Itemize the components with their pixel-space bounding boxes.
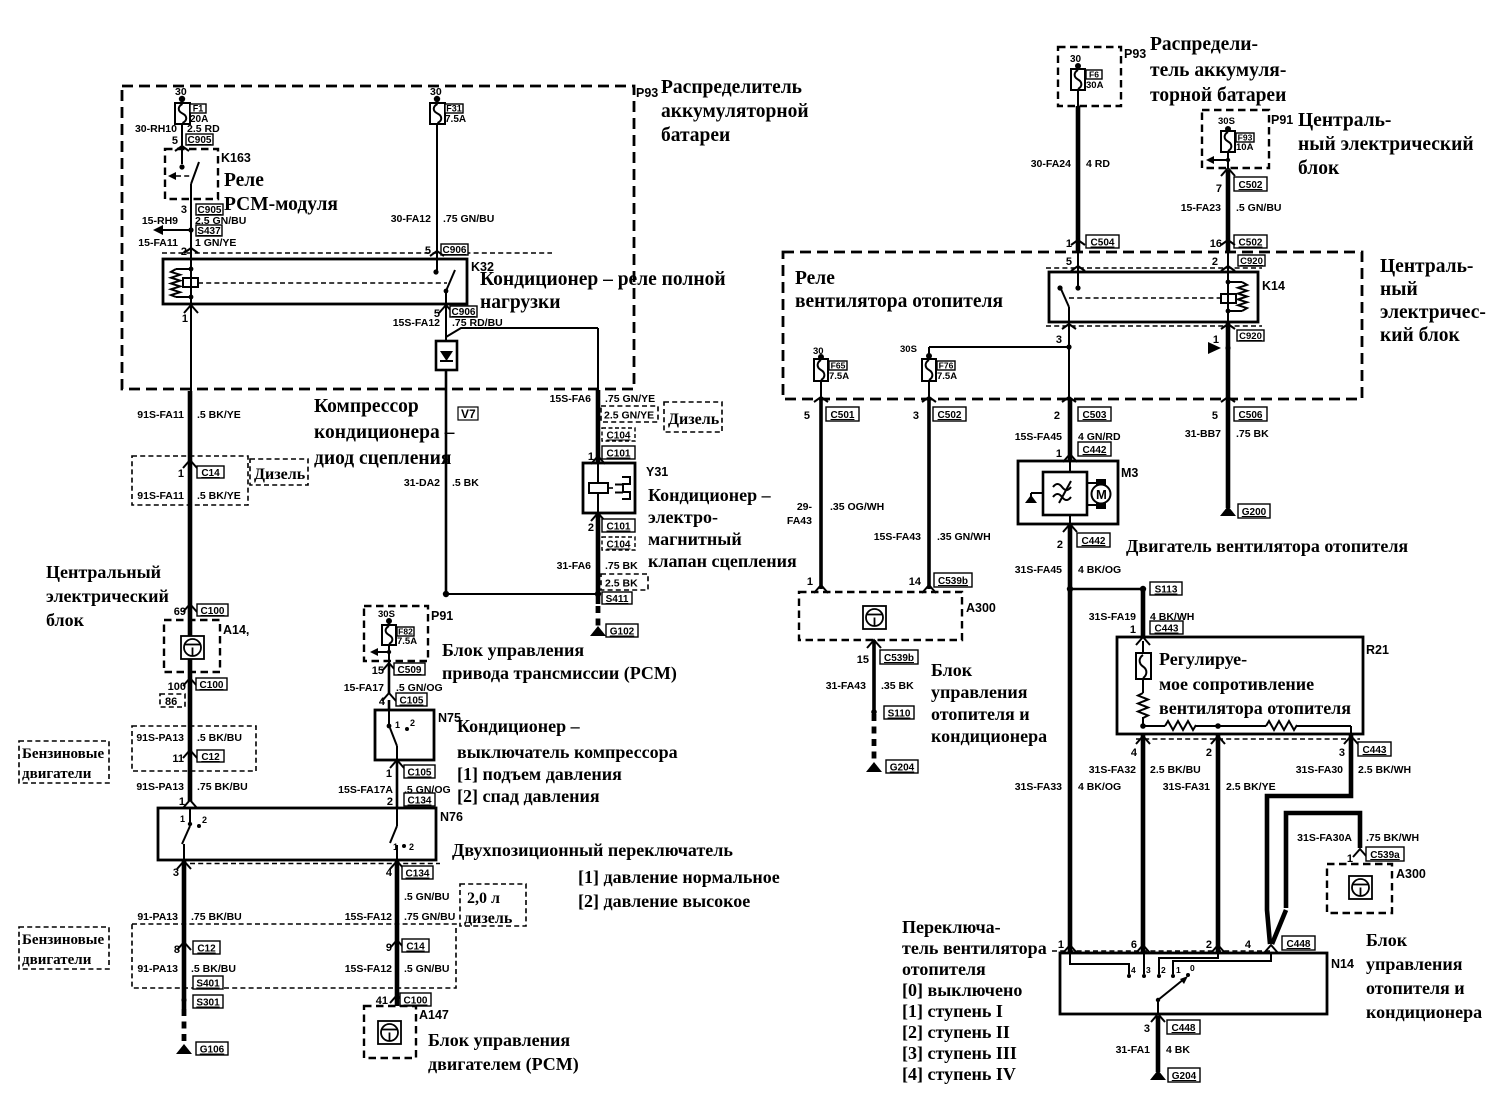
svg-text:7.5A: 7.5A [937,371,957,382]
solenoid valve Y31 [583,463,668,513]
wire F31 to K32 pin5 (30-FA12) [391,124,495,270]
label: Кондиционер – реле полной нагрузки [480,269,726,313]
wire K14 pin1 down with arrow marker [1208,322,1231,399]
connector 4 C105 [379,693,427,710]
svg-text:31S-FA31: 31S-FA31 [1163,781,1210,793]
svg-text:G204: G204 [890,763,915,774]
svg-text:15: 15 [857,654,869,666]
svg-text:2: 2 [1054,410,1060,422]
svg-text:6: 6 [1131,939,1137,951]
label: Блок управления отопителя и кондиционера (right) [1366,930,1482,1022]
svg-text:C442: C442 [1082,536,1106,547]
fuse F76 7.5A [900,344,957,399]
svg-text:2.5 RD: 2.5 RD [187,123,220,135]
svg-text:.75 BK/BU: .75 BK/BU [197,781,248,793]
svg-text:3: 3 [1146,965,1151,975]
svg-text:G106: G106 [200,1045,225,1056]
svg-text:2: 2 [1206,747,1212,759]
svg-text:30-FA24: 30-FA24 [1031,158,1071,170]
svg-text:15S-FA45: 15S-FA45 [1015,431,1062,443]
svg-text:4: 4 [1245,939,1252,951]
svg-text:2: 2 [202,815,207,825]
wire branch from diode top to Y31 column [446,328,598,390]
connector 8 C12 [137,941,236,975]
svg-text:G200: G200 [1242,507,1267,518]
svg-text:C448: C448 [1287,939,1311,950]
connector line C920 (top) [1046,255,1265,271]
dashed connector line above K32 [162,252,552,254]
svg-text:отопителя и: отопителя и [931,704,1030,724]
svg-text:электро-: электро- [648,507,718,527]
label: Двухпозиционный переключатель [452,840,780,911]
svg-text:.35 GN/WH: .35 GN/WH [937,531,991,543]
svg-text:A300: A300 [1396,867,1426,881]
heater fan motor M3 [1018,461,1138,524]
svg-text:.75 BK: .75 BK [605,560,638,572]
svg-text:30S: 30S [900,344,917,355]
connector 1 C105 below N75 [338,760,451,808]
svg-text:C502: C502 [938,410,962,421]
label: Блок управления привода трансмиссии (РСМ) [442,640,677,684]
resistor block R21 [1117,637,1389,734]
svg-text:15-FA23: 15-FA23 [1181,202,1221,214]
svg-text:N14: N14 [1331,957,1354,971]
svg-text:31-FA1: 31-FA1 [1116,1044,1151,1056]
svg-text:выключатель компрессора: выключатель компрессора [457,742,678,762]
svg-text:C104: C104 [607,540,631,551]
svg-text:Распредели-: Распредели- [1150,34,1258,55]
label box Бензиновые двигатели (lower) [19,927,109,969]
svg-text:2.5 BK/BU: 2.5 BK/BU [1150,764,1201,776]
svg-text:4: 4 [386,867,393,879]
svg-text:Y31: Y31 [646,465,668,479]
label box Дизель [250,459,308,485]
svg-text:2: 2 [1206,939,1212,951]
svg-text:31S-FA32: 31S-FA32 [1089,764,1136,776]
wire fuse F1 to C905 [135,123,220,151]
svg-text:Двигатель вентилятора отопител: Двигатель вентилятора отопителя [1126,536,1408,556]
module A14 dashed box with icon [164,620,249,672]
wire 31-BB7 .75 BK to ground G200 [1185,399,1270,518]
label: Кондиционер – электро-магнитный клапан сцепления [648,485,797,571]
svg-text:2: 2 [588,522,594,534]
svg-text:кондиционера: кондиционера [1366,1002,1482,1022]
svg-text:.75 GN/BU: .75 GN/BU [443,213,494,225]
svg-text:G204: G204 [1172,1071,1197,1082]
svg-text:Блок управления: Блок управления [442,640,584,660]
connector 100 C100 / 86 [160,678,227,708]
svg-text:[0] выключено: [0] выключено [902,980,1022,1000]
wire 31-FA6 to S411 and ground G102 [557,513,648,605]
svg-text:блок: блок [1298,158,1340,179]
svg-text:S110: S110 [888,709,911,720]
svg-text:РСМ-модуля: РСМ-модуля [224,194,338,215]
svg-text:29-: 29- [797,501,813,513]
svg-text:15-FA11: 15-FA11 [138,237,178,249]
relay K32 coil [171,248,447,304]
wire N76 pin4 down [345,861,456,1006]
svg-text:3: 3 [1144,1023,1150,1035]
svg-text:M3: M3 [1121,466,1138,480]
svg-text:1: 1 [180,814,185,824]
connector line C448 above N14 [1052,936,1315,953]
svg-text:F65: F65 [831,361,846,371]
svg-text:30S: 30S [378,609,395,620]
svg-text:1: 1 [182,313,188,325]
svg-text:Блок: Блок [1366,930,1408,950]
svg-text:C104: C104 [607,431,631,442]
svg-text:Дизель: Дизель [254,466,306,483]
svg-text:Реле: Реле [795,268,835,289]
svg-text:30-FA12: 30-FA12 [391,213,431,225]
label: Кондиционер – выключатель компрессора [457,716,678,806]
two-position switch N76 box [158,808,463,864]
wire K14 pin3 down with branch to F76 [929,322,1072,399]
svg-text:.5 GN/BU: .5 GN/BU [404,891,450,903]
wire 31S-FA32 2.5 BK/BU to N14 pin6 [1089,734,1201,952]
svg-text:7: 7 [1216,183,1222,195]
svg-text:5: 5 [172,135,178,147]
label: Блок управления отопителя и кондиционера (left) [931,660,1047,746]
svg-text:2: 2 [409,842,414,852]
K32 pin1 exit arrow [182,305,198,325]
svg-text:30A: 30A [1086,80,1104,91]
svg-text:диод сцепления: диод сцепления [314,448,452,469]
svg-text:C100: C100 [201,606,225,617]
wire 30-FA24 4 RD [1031,90,1119,252]
svg-text:15S-FA17A: 15S-FA17A [338,784,393,796]
svg-text:[2] спад давления: [2] спад давления [457,786,600,806]
wire 91S-PA13 to N76 [136,781,247,808]
svg-text:91-PA13: 91-PA13 [137,911,178,923]
svg-text:2.5 BK/YE: 2.5 BK/YE [1226,781,1276,793]
svg-text:2: 2 [387,796,393,808]
dashed region C12 petrol [132,726,256,771]
svg-text:S411: S411 [606,594,629,605]
svg-text:Реле: Реле [224,170,264,191]
svg-text:31-BB7: 31-BB7 [1185,428,1221,440]
svg-text:кондиционера: кондиционера [931,726,1047,746]
svg-text:C12: C12 [201,752,220,763]
svg-text:2.5 BK/WH: 2.5 BK/WH [1358,764,1411,776]
svg-text:Централь-: Централь- [1298,110,1391,131]
svg-text:C501: C501 [831,410,855,421]
relay K163 contacts [168,148,199,204]
svg-text:[2] давление высокое: [2] давление высокое [578,891,750,911]
svg-text:аккумуляторной: аккумуляторной [661,101,809,122]
splice S437 with left arrow [138,225,236,258]
label: Реле вентилятора отопителя [795,268,1003,312]
label: Регулируе-мое сопротивление вентилятора отопителя [1159,649,1351,718]
svg-text:вентилятора отопителя: вентилятора отопителя [1159,698,1351,718]
svg-text:отопителя: отопителя [902,959,986,979]
connector line C920 (bottom) [1046,324,1264,346]
svg-text:15S-FA12: 15S-FA12 [393,317,440,329]
svg-text:7.5A: 7.5A [829,371,849,382]
svg-text:31S-FA19: 31S-FA19 [1089,611,1136,623]
svg-text:V7: V7 [461,407,476,421]
svg-text:C504: C504 [1091,238,1115,249]
connector row C501 C502 C503 C506 [804,397,1267,422]
svg-text:кондиционера –: кондиционера – [314,422,455,443]
svg-text:4: 4 [1131,747,1138,759]
svg-text:S401: S401 [196,979,220,990]
svg-text:C442: C442 [1083,445,1107,456]
svg-text:S113: S113 [1155,585,1178,596]
svg-text:F31: F31 [446,104,462,114]
pressure switch N75 box [375,710,461,760]
svg-text:Блок управления: Блок управления [428,1030,570,1050]
svg-text:[2] ступень II: [2] ступень II [902,1022,1010,1042]
svg-text:F76: F76 [939,361,954,371]
svg-text:C443: C443 [1155,624,1179,635]
svg-text:31S-FA33: 31S-FA33 [1015,781,1062,793]
box P93 battery junction box (left) [122,86,658,389]
wire 15S-FA43 .35 GN/WH [874,399,991,593]
svg-text:[1] давление нормальное: [1] давление нормальное [578,867,780,887]
svg-text:14: 14 [909,576,922,588]
svg-text:15S-FA43: 15S-FA43 [874,531,921,543]
svg-text:S301: S301 [196,998,220,1009]
svg-text:2,0 л: 2,0 л [467,890,500,907]
svg-text:10A: 10A [1236,142,1254,153]
label: Централь-ный электричес-кий блок [1380,256,1486,346]
svg-text:2: 2 [410,718,415,728]
dashed region petrol engines (bottom) [132,924,456,988]
svg-text:11: 11 [172,753,184,765]
relay K163 dashed box [165,149,251,199]
label: Централь-ный электрический блок [1298,110,1474,179]
wire 31S-FA19 4 BK/WH [1089,589,1195,637]
svg-text:7.5A: 7.5A [445,114,466,125]
relay K14 coil [1221,252,1247,322]
svg-text:4 RD: 4 RD [1086,158,1110,170]
svg-text:C509: C509 [398,665,422,676]
svg-text:15S-FA6: 15S-FA6 [550,393,592,405]
svg-text:C443: C443 [1363,745,1387,756]
module A147 dashed box with icon [364,1006,449,1058]
wire N76 pin3 down [137,861,241,1009]
svg-text:Кондиционер –: Кондиционер – [648,485,772,505]
wire 31-FA1 4 BK to ground G204 [1116,1014,1200,1082]
svg-text:F93: F93 [1238,133,1253,143]
svg-text:C101: C101 [607,522,631,533]
svg-text:.75 BK/WH: .75 BK/WH [1366,832,1419,844]
connector 69 C100 [174,604,228,618]
svg-text:ный: ный [1380,279,1418,300]
N76 right switch [390,808,414,860]
svg-text:R21: R21 [1366,643,1389,657]
svg-text:M: M [1096,487,1107,502]
svg-text:30-RH10: 30-RH10 [135,123,177,135]
svg-text:Компрессор: Компрессор [314,396,419,417]
label: Распределитель аккумуляторной батареи [661,77,809,146]
relay K32 switch [433,269,455,304]
label box Дизель (right) [664,402,722,432]
svg-text:1: 1 [1058,939,1064,951]
svg-text:16: 16 [1210,238,1222,250]
svg-text:4 GN/RD: 4 GN/RD [1078,431,1121,443]
svg-text:3: 3 [913,410,919,422]
svg-text:.35 OG/WH: .35 OG/WH [830,501,884,513]
label: Реле РСМ-модуля [224,170,338,215]
svg-text:C14: C14 [201,468,220,479]
svg-text:.5 BK/BU: .5 BK/BU [197,732,242,744]
wire 31-DA2 from diode to S411 line [404,370,598,597]
wire 31S-FA45 4 BK/OG down to N14 pin1 [1015,524,1121,952]
wire 91S-FA11 (left column, K32 pin1 down) [137,304,240,801]
wire 31S-FA31 2.5 BK/YE to N14 pin2 [1163,734,1276,952]
diode V7 [436,341,478,421]
splice S110 and ground G204 (left) [866,706,918,774]
svg-text:блок: блок [46,610,85,630]
svg-text:[4] ступень IV: [4] ступень IV [902,1064,1016,1084]
relay K32 box [163,259,494,304]
svg-text:31S-FA30A: 31S-FA30A [1297,832,1352,844]
svg-text:3: 3 [1339,747,1345,759]
svg-text:C502: C502 [1239,180,1263,191]
fuse F6 30A [1070,54,1104,91]
svg-text:31S-FA45: 31S-FA45 [1015,564,1062,576]
svg-text:кий блок: кий блок [1380,325,1461,346]
svg-text:15S-FA12: 15S-FA12 [345,963,392,975]
K32 pin5 bottom / C906 [393,304,503,341]
svg-text:клапан сцепления: клапан сцепления [648,551,797,571]
svg-text:1: 1 [395,720,400,730]
svg-text:15S-FA12: 15S-FA12 [345,911,392,923]
svg-text:Бензиновые: Бензиновые [22,932,104,948]
svg-text:91S-FA11: 91S-FA11 [137,409,184,421]
svg-text:тель аккумуля-: тель аккумуля- [1150,60,1286,81]
svg-text:Блок: Блок [931,660,973,680]
svg-text:5: 5 [1212,410,1218,422]
wire 31S-FA30A .75 BK/WH branch to C539a [1272,813,1419,944]
svg-text:.5 GN/OG: .5 GN/OG [396,682,443,694]
svg-text:торной батареи: торной батареи [1150,85,1286,106]
svg-text:1: 1 [1176,965,1181,975]
svg-text:P93: P93 [1124,47,1146,61]
svg-text:Централь-: Централь- [1380,256,1473,277]
svg-text:FA43: FA43 [787,515,812,527]
wire 15-FA23 .5 GN/BU [1181,168,1282,252]
svg-text:двигатели: двигатели [22,766,92,782]
svg-text:двигателем (РСМ): двигателем (РСМ) [428,1054,579,1075]
svg-text:91S-PA13: 91S-PA13 [136,781,184,793]
N76 left switch [180,808,207,860]
svg-text:3: 3 [173,867,179,879]
svg-text:C101: C101 [607,449,631,460]
wire K163 pin3 to K32 pin2 [142,204,247,259]
svg-text:F6: F6 [1089,70,1099,80]
svg-text:1: 1 [807,576,813,588]
svg-text:C100: C100 [200,680,224,691]
svg-text:привода трансмиссии (РСМ): привода трансмиссии (РСМ) [442,663,677,684]
svg-text:4: 4 [1131,965,1136,975]
svg-text:электричес-: электричес- [1380,302,1486,323]
svg-text:1: 1 [1056,448,1062,460]
svg-text:батареи: батареи [661,125,730,146]
svg-text:C12: C12 [197,944,216,955]
connectors C101 / C104 below Y31 [588,513,635,551]
fuse F65 7.5A [813,346,849,399]
svg-text:P93: P93 [636,86,658,100]
svg-text:91S-FA11: 91S-FA11 [137,490,184,502]
svg-text:2: 2 [1212,256,1218,268]
svg-text:5: 5 [804,410,810,422]
svg-text:Переключа-: Переключа- [902,917,1001,937]
wire 29-FA43 .35 OG/WH [787,399,884,593]
svg-text:.75 BK/BU: .75 BK/BU [191,911,242,923]
svg-text:2.5 GN/YE: 2.5 GN/YE [604,410,654,422]
svg-text:C539a: C539a [1370,850,1400,861]
svg-text:C539b: C539b [938,576,968,587]
svg-text:.75 GN/YE: .75 GN/YE [605,393,655,405]
svg-text:C905: C905 [188,135,212,146]
label box 2,0 л дизель [460,884,526,927]
splice S113 branch [1067,582,1182,596]
svg-text:[1] подъем давления: [1] подъем давления [457,764,622,784]
svg-text:K163: K163 [221,151,251,165]
svg-text:4 BK/OG: 4 BK/OG [1078,781,1121,793]
connector C14 diesel dashed region [132,456,248,505]
svg-text:31-FA43: 31-FA43 [826,680,866,692]
wire 15S-FA45 4 GN/RD to motor [1015,399,1121,462]
svg-text:[3] ступень III: [3] ступень III [902,1043,1017,1063]
svg-text:C105: C105 [400,696,424,707]
svg-text:2.5 BK: 2.5 BK [605,578,638,590]
svg-text:отопителя и: отопителя и [1366,978,1465,998]
heater fan switch N14 box [1060,953,1354,1014]
svg-text:F1: F1 [193,104,204,114]
svg-text:31-DA2: 31-DA2 [404,477,440,489]
relay K14 box [1049,272,1285,322]
svg-text:нагрузки: нагрузки [480,292,561,313]
label: Центральный электрический блок [46,562,169,630]
svg-text:C920: C920 [1240,256,1263,267]
svg-text:[1] ступень I: [1] ступень I [902,1001,1003,1021]
fuse F82 7.5A [370,609,417,663]
svg-text:4 BK/OG: 4 BK/OG [1078,564,1121,576]
label: Компрессор кондиционера – диод сцепления [314,396,455,469]
ground G106 [176,1009,228,1056]
ground G102 [590,606,638,638]
svg-text:91S-PA13: 91S-PA13 [136,732,184,744]
fuse F31 7.5A [430,86,466,125]
svg-text:A300: A300 [966,601,996,615]
relay K14 switch [1057,252,1222,322]
svg-text:Центральный: Центральный [46,562,161,582]
svg-text:C539b: C539b [884,653,914,664]
svg-text:100: 100 [168,681,186,693]
svg-text:вентилятора отопителя: вентилятора отопителя [795,291,1003,312]
connectors C104 / C101 above Y31 [588,428,635,464]
svg-text:C906: C906 [443,245,467,256]
svg-text:Кондиционер –: Кондиционер – [457,716,581,736]
connector 41 C100 [376,993,431,1007]
splice S401 [193,976,223,990]
svg-text:двигатели: двигатели [22,952,92,968]
svg-text:30: 30 [1070,54,1082,65]
svg-text:1: 1 [178,468,184,480]
connector 9 C14 [345,939,450,975]
svg-text:N76: N76 [440,810,463,824]
wire 15S-FA6 to Y31 [550,390,658,463]
svg-text:K14: K14 [1262,279,1285,293]
svg-text:5: 5 [1066,256,1072,268]
svg-text:1: 1 [1130,624,1136,636]
svg-text:Регулируе-: Регулируе- [1159,649,1247,669]
svg-text:C448: C448 [1172,1023,1196,1034]
